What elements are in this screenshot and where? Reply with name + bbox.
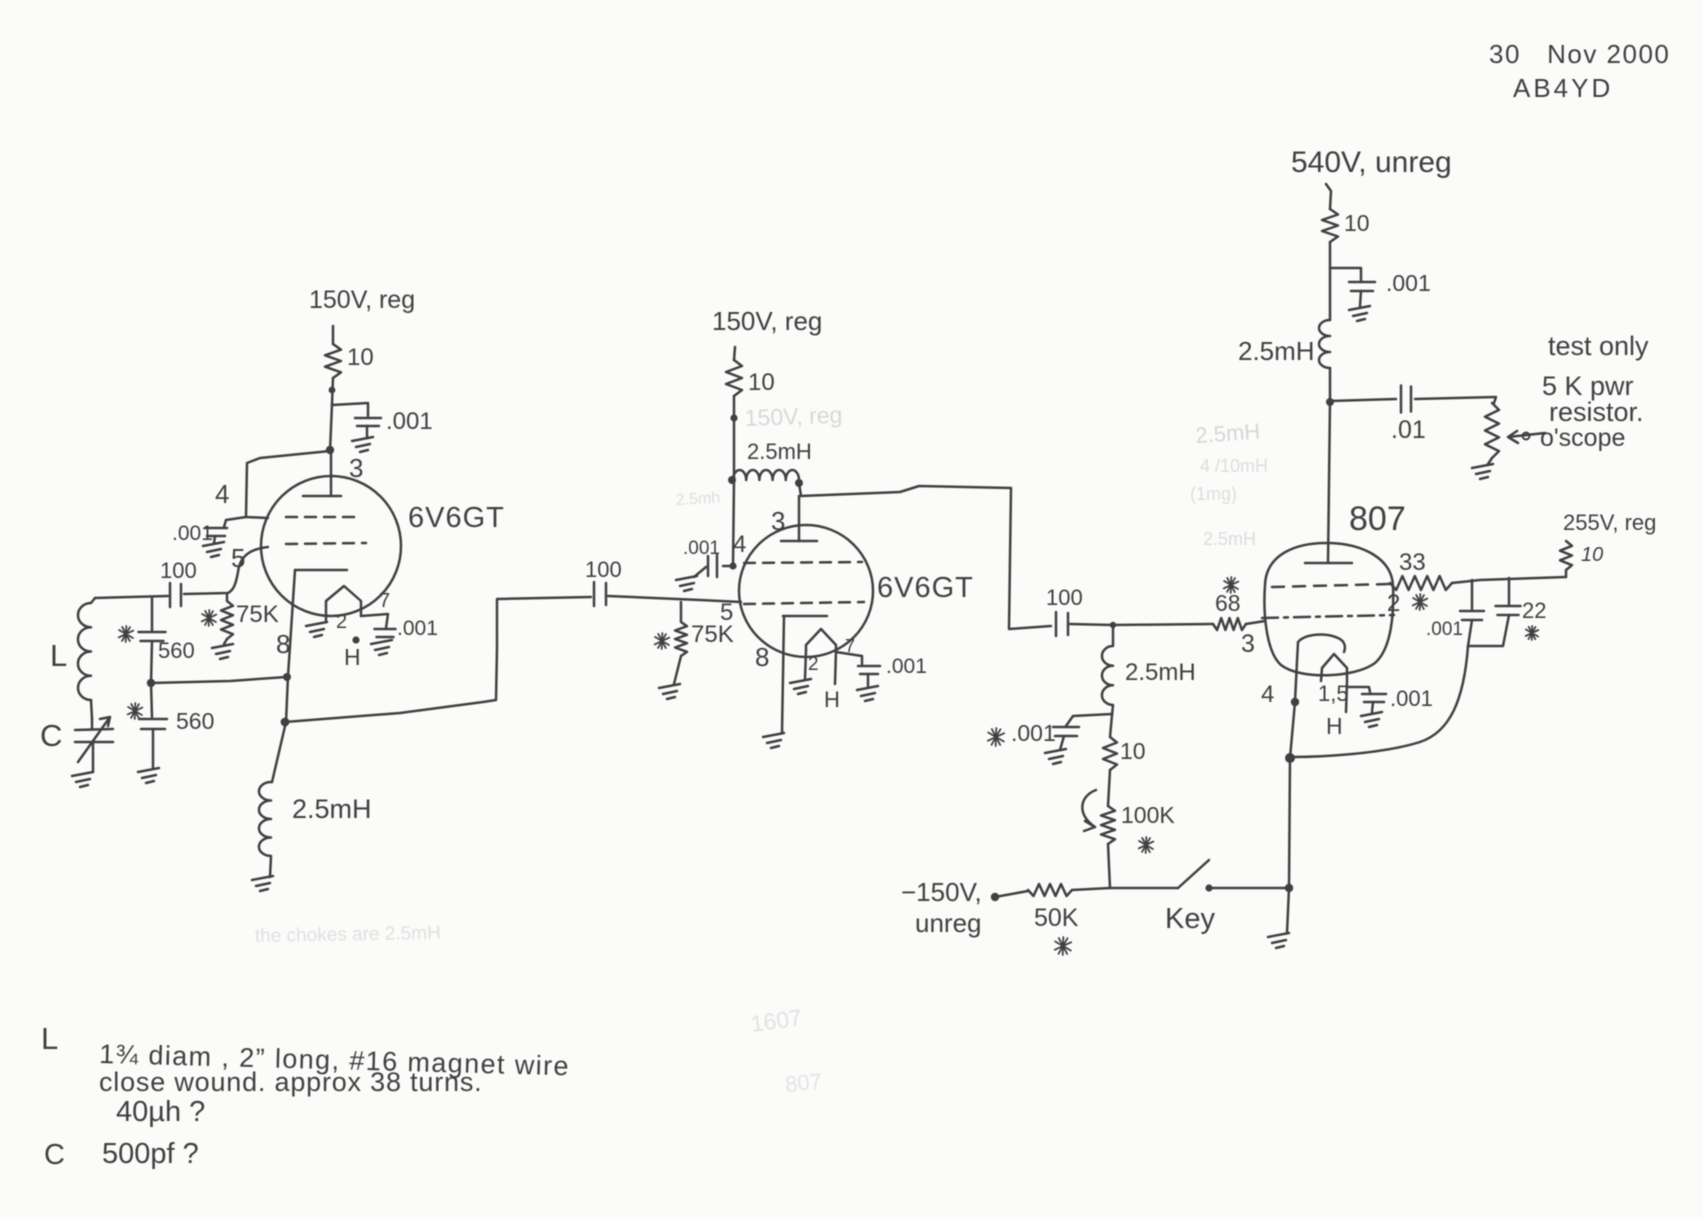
wire R9 to C13 branch	[1329, 242, 1332, 320]
svg-text:33: 33	[1399, 549, 1426, 576]
svg-text:150V, reg: 150V, reg	[712, 306, 822, 336]
wire C2 to ground	[214, 536, 215, 543]
resistor R7 100K pot	[1101, 806, 1115, 844]
node dot key-cathode junction	[1285, 884, 1293, 892]
svg-text:10: 10	[1120, 738, 1146, 764]
wire pin4 stub to C2	[224, 517, 246, 527]
node dot -150V terminal	[991, 893, 999, 901]
resistor R9 10 (807 supply)	[1322, 209, 1338, 242]
svg-text:.001: .001	[886, 655, 927, 678]
wire cathode vertical V2 (pin 8)	[782, 616, 784, 733]
node dot 807 plate node	[1326, 398, 1334, 406]
node dot cathode bus	[1285, 753, 1295, 763]
wire C10 to ground	[867, 674, 870, 686]
svg-text:5: 5	[231, 543, 245, 573]
svg-text:2.5mH: 2.5mH	[292, 794, 372, 824]
capacitor C10 .001 cathode V2	[858, 666, 880, 674]
capacitor C17 .001 cathode 807	[1362, 694, 1386, 702]
wire C11 to R5	[1070, 624, 1213, 625]
svg-text:AB4YD: AB4YD	[1513, 73, 1613, 103]
svg-text:2.5mh: 2.5mh	[675, 490, 720, 509]
svg-text:75K: 75K	[691, 621, 734, 648]
wire pin 5 grid lead V1	[184, 547, 268, 594]
capacitor C15 .001 output	[1460, 611, 1484, 620]
tube V1 envelope 6V6GT	[261, 476, 401, 616]
wire branch to C13	[1330, 268, 1361, 281]
wire -150V to R8	[995, 891, 1028, 897]
wire H leg V2	[835, 650, 836, 684]
resistor R8 50K	[1028, 884, 1072, 896]
tube 807 grid dashes row1	[1272, 584, 1390, 587]
svg-text:.001: .001	[683, 538, 720, 559]
svg-text:8: 8	[755, 642, 769, 672]
wire branch to C15	[1471, 580, 1474, 609]
svg-text:100: 100	[1046, 585, 1083, 610]
svg-text:10: 10	[347, 344, 374, 371]
wire output return to cathode	[1292, 646, 1468, 757]
star mark R2	[202, 610, 217, 626]
wire R3 down to coil node	[733, 396, 736, 480]
wire R8 to key	[1072, 888, 1178, 890]
ground under R10	[1472, 464, 1493, 479]
svg-text:C: C	[40, 718, 62, 753]
star mark R8	[1055, 937, 1071, 955]
wire C13 to ground	[1360, 291, 1361, 306]
oscilloscope arrow	[1508, 431, 1545, 443]
wire choke to C12	[1066, 714, 1112, 726]
star mark C16	[1526, 626, 1539, 640]
heater tent 807	[1321, 654, 1347, 712]
wire plate node to scope branch	[1330, 399, 1396, 401]
ground under C8	[676, 576, 697, 591]
svg-text:540V, unreg: 540V, unreg	[1291, 146, 1452, 179]
svg-text:40µh ?: 40µh ?	[116, 1096, 205, 1128]
tube V1 grid dashes row2	[286, 543, 366, 544]
wire supply lead V1	[332, 326, 335, 344]
wire C12 to ground	[1060, 736, 1064, 750]
svg-text:L: L	[50, 638, 67, 673]
svg-text:(1mg): (1mg)	[1190, 484, 1237, 504]
wire cathode bus 807	[1289, 702, 1295, 888]
wire R5 to 807 grid	[1246, 621, 1265, 624]
svg-text:100K: 100K	[1121, 802, 1175, 828]
resistor R6 10 (keying)	[1103, 715, 1117, 770]
wire C15 C16 bottoms joined	[1468, 615, 1509, 646]
node B junction dot	[147, 679, 155, 687]
wire C3 left to tank	[95, 596, 168, 598]
capacitor C13 .001 supply bypass	[1349, 282, 1375, 291]
wire R1 to node	[330, 378, 333, 451]
star mark C6	[128, 703, 143, 719]
capacitor C3 100 coupling (stage1 grid)	[170, 583, 181, 607]
star mark C12	[988, 728, 1004, 746]
ground under key line	[1268, 933, 1289, 948]
wire C6 to ground	[152, 729, 155, 768]
wire riser down to 807 grid line	[1009, 488, 1051, 629]
capacitor C6 560 bottom	[151, 683, 152, 717]
wire cathode vertical (pin 8)	[272, 570, 295, 782]
svg-text:50K: 50K	[1034, 904, 1079, 932]
wire node B to cathode line	[151, 677, 286, 683]
resistor R2 75K grid leak	[221, 594, 233, 639]
capacitor C16 22 output	[1496, 606, 1521, 615]
wire L5 to plate node	[1329, 368, 1332, 402]
node junction dot stage1 supply	[329, 387, 336, 394]
capacitor C14 .01 scope coupling	[1401, 386, 1411, 413]
arrow through C4 (variable)	[78, 717, 110, 762]
svg-text:.001: .001	[1011, 720, 1056, 746]
wire key to cathode line	[1212, 887, 1289, 890]
node dot pin4 807	[1291, 698, 1299, 706]
star mark R5	[1224, 577, 1239, 593]
svg-text:Key: Key	[1165, 903, 1215, 935]
node dot H V1	[352, 636, 359, 643]
ground under C17	[1361, 712, 1382, 727]
svg-text:2: 2	[1387, 590, 1400, 617]
resistor R3 10 (stage2 supply)	[726, 360, 742, 396]
tube V2 plate bar	[781, 540, 817, 543]
svg-text:.001: .001	[397, 617, 438, 640]
capacitor C11 100 coupling to 807	[1056, 612, 1068, 636]
svg-text:L: L	[41, 1021, 58, 1056]
tube V1 plate bar	[303, 495, 341, 498]
svg-text:560: 560	[158, 638, 195, 663]
wire L1 to C4	[91, 700, 92, 719]
tube V1 grid dashes row1	[286, 516, 362, 519]
capacitor C8 .001 screen bypass V2	[723, 565, 733, 568]
wire R6 to R7	[1108, 770, 1110, 806]
svg-text:H: H	[344, 644, 361, 670]
svg-text:unreg: unreg	[915, 908, 982, 938]
svg-text:68: 68	[1215, 590, 1241, 616]
wire C8 to ground	[694, 567, 706, 577]
tube 807 cathode bar	[1295, 635, 1345, 701]
tube V2 envelope 6V6GT	[739, 525, 873, 657]
ground under L2	[252, 876, 273, 891]
svg-text:150V, reg: 150V, reg	[744, 402, 842, 431]
capacitor C5 560 top	[151, 598, 154, 630]
wire pins to C17	[1347, 687, 1370, 692]
resistor R5 68 grid stopper	[1213, 618, 1246, 630]
svg-text:.001: .001	[386, 408, 433, 435]
svg-text:.001: .001	[1390, 686, 1433, 711]
svg-text:22: 22	[1522, 598, 1546, 623]
svg-text:−150V,: −150V,	[901, 877, 982, 907]
node junction dot pin4 V2	[729, 562, 736, 569]
svg-text:6V6GT: 6V6GT	[408, 502, 505, 534]
svg-text:C: C	[44, 1139, 65, 1171]
svg-text:10: 10	[1344, 210, 1370, 236]
svg-text:2: 2	[808, 654, 819, 675]
wire stage1 output to stage2	[285, 597, 591, 722]
wire plate node to riser V2	[799, 483, 1011, 496]
wire R4 to ground	[674, 656, 681, 684]
svg-text:.01: .01	[1391, 416, 1426, 444]
ground under heater pin2 V1	[306, 622, 327, 637]
node dot below R3	[730, 414, 737, 421]
ground under C4	[72, 772, 93, 787]
svg-text:o'scope: o'scope	[1540, 424, 1625, 452]
capacitor C7 .001 cathode V1	[375, 629, 396, 637]
svg-text:75K: 75K	[236, 601, 279, 628]
wire supply lead V2	[734, 347, 735, 360]
svg-text:6V6GT: 6V6GT	[877, 572, 974, 604]
wire C17 to ground	[1372, 702, 1373, 712]
node junction choke tap	[1110, 622, 1116, 628]
wire B+ down to pin4 junction V2	[733, 480, 734, 566]
svg-text:.001: .001	[1386, 270, 1431, 296]
star mark R4	[655, 633, 670, 649]
wire feedback loop to pin 4	[246, 451, 330, 518]
ground under cathode V2	[763, 733, 784, 748]
svg-text:10: 10	[1581, 544, 1603, 566]
inductor L5 2.5mH plate choke 807	[1319, 320, 1330, 368]
svg-text:close wound. approx 38 turns.: close wound. approx 38 turns.	[99, 1067, 482, 1097]
resistor R12 10 (255V feed)	[1560, 541, 1572, 577]
ground under R4	[659, 684, 680, 699]
tube 807 envelope	[1264, 543, 1393, 675]
ground under C10	[857, 686, 878, 701]
inductor L1 tank coil L	[78, 598, 95, 700]
wire R2 to ground	[224, 639, 227, 644]
svg-text:100: 100	[585, 557, 622, 582]
pot wiper arrow R7	[1082, 790, 1096, 831]
svg-text:4: 4	[1261, 681, 1274, 708]
svg-text:560: 560	[176, 708, 214, 734]
tube V2 grid dashes row2	[744, 602, 864, 604]
node dot key contact	[1205, 884, 1212, 891]
wire plate lead 807	[1328, 402, 1330, 563]
ground under C6	[138, 768, 159, 783]
svg-text:255V, reg: 255V, reg	[1563, 510, 1656, 535]
star mark pin2	[1413, 594, 1428, 610]
node A dot (stage1 plate node)	[326, 446, 334, 454]
svg-text:8: 8	[276, 629, 290, 659]
wire branch to C16	[1508, 578, 1511, 604]
svg-text:30 Nov 2000: 30 Nov 2000	[1489, 39, 1670, 69]
node dot cathode-tank junction	[283, 673, 291, 681]
svg-text:3: 3	[1241, 630, 1255, 658]
svg-text:2.5mH: 2.5mH	[747, 439, 812, 464]
wire C9 to pin5 V2	[608, 596, 741, 602]
svg-text:500pf ?: 500pf ?	[102, 1138, 199, 1170]
wire C1 to ground	[366, 426, 369, 438]
inductor L4 2.5mH grid choke	[1102, 625, 1113, 715]
ground under C13	[1349, 306, 1370, 321]
svg-text:10: 10	[748, 369, 775, 396]
resistor R10 5K test load	[1485, 403, 1499, 458]
svg-text:2.5mH: 2.5mH	[1203, 529, 1256, 549]
wire C5 to node B	[151, 641, 152, 683]
wire key line to ground	[1287, 888, 1289, 933]
svg-text:2.5mH: 2.5mH	[1125, 659, 1196, 686]
resistor R4 75K grid leak V2	[675, 602, 687, 656]
capacitor C12 .001 keying filter	[1053, 727, 1079, 736]
svg-text:100: 100	[160, 558, 197, 583]
ground under pin2 V2	[790, 679, 811, 694]
star mark C5	[119, 626, 134, 642]
inductor L3 2.5mH plate choke (horizontal)	[733, 470, 799, 480]
tube 807 plate bar	[1305, 562, 1352, 565]
wire pin 3 plate lead V1	[330, 451, 333, 496]
wire pin 7 V2	[836, 652, 862, 664]
svg-text:H: H	[1326, 713, 1343, 739]
wire pin 3 plate lead V2	[798, 496, 801, 541]
svg-text:4 /10mH: 4 /10mH	[1200, 456, 1268, 476]
star mark R7	[1139, 837, 1154, 853]
capacitor C2 .001 screen bypass	[205, 528, 227, 536]
wire R11 to output node	[1452, 577, 1566, 583]
svg-text:test only: test only	[1548, 331, 1649, 361]
switch Key lever	[1178, 860, 1209, 888]
svg-text:7: 7	[379, 590, 390, 612]
tube V2 grid dashes row1	[744, 562, 862, 563]
svg-text:2.5mH: 2.5mH	[1195, 419, 1261, 448]
svg-text:2: 2	[336, 611, 347, 633]
wire branch to C1	[332, 403, 368, 417]
resistor R1 10 (stage1 plate supply)	[325, 344, 341, 378]
svg-text:the chokes are 2.5mH: the chokes are 2.5mH	[255, 923, 441, 947]
svg-text:1607: 1607	[749, 1004, 803, 1037]
svg-text:1,5: 1,5	[1318, 681, 1349, 706]
svg-text:.001: .001	[1426, 619, 1463, 640]
ground under C2	[203, 542, 224, 557]
heater tent V2	[806, 629, 836, 650]
wire supply lead 807	[1326, 184, 1331, 209]
heater tent V1	[326, 586, 361, 622]
tube V2 pin8 cathode bar	[783, 615, 827, 618]
svg-text:4: 4	[733, 531, 746, 558]
svg-text:resistor.: resistor.	[1549, 397, 1644, 427]
wire R7 to key line	[1108, 844, 1110, 888]
node dot L3 left	[728, 476, 736, 484]
svg-text:807: 807	[784, 1068, 823, 1097]
oscilloscope tap dot	[1523, 433, 1530, 440]
ground under C1	[352, 437, 373, 452]
wire R10 to ground	[1488, 458, 1492, 464]
capacitor C9 100 coupling stage2	[594, 582, 606, 606]
tube V1 pin8 cathode bar	[295, 569, 347, 572]
wire pin 7 V1	[361, 614, 388, 628]
svg-text:2.5mH: 2.5mH	[1238, 336, 1315, 366]
svg-text:4: 4	[215, 479, 229, 509]
svg-text:.001: .001	[172, 522, 213, 545]
wire pin2 heater leg V2	[805, 650, 806, 679]
node dot L3 right	[795, 479, 803, 487]
node dot output junction	[281, 718, 290, 727]
svg-text:150V, reg: 150V, reg	[309, 286, 415, 314]
ground under C7	[371, 640, 392, 655]
svg-text:7: 7	[845, 636, 855, 656]
variable capacitor C4 tank cap C	[75, 719, 113, 772]
ground under R2	[212, 644, 233, 659]
ground under C12	[1045, 749, 1066, 764]
inductor L2 2.5mH cathode choke	[259, 782, 272, 877]
svg-text:H: H	[824, 687, 840, 712]
wire C14 to R10	[1415, 397, 1496, 403]
svg-text:807: 807	[1349, 500, 1406, 538]
tube 807 grid dashes row2	[1262, 615, 1394, 618]
resistor R11 33 parasitic suppressor	[1390, 576, 1452, 590]
capacitor C1 .001 plate bypass	[355, 418, 381, 426]
